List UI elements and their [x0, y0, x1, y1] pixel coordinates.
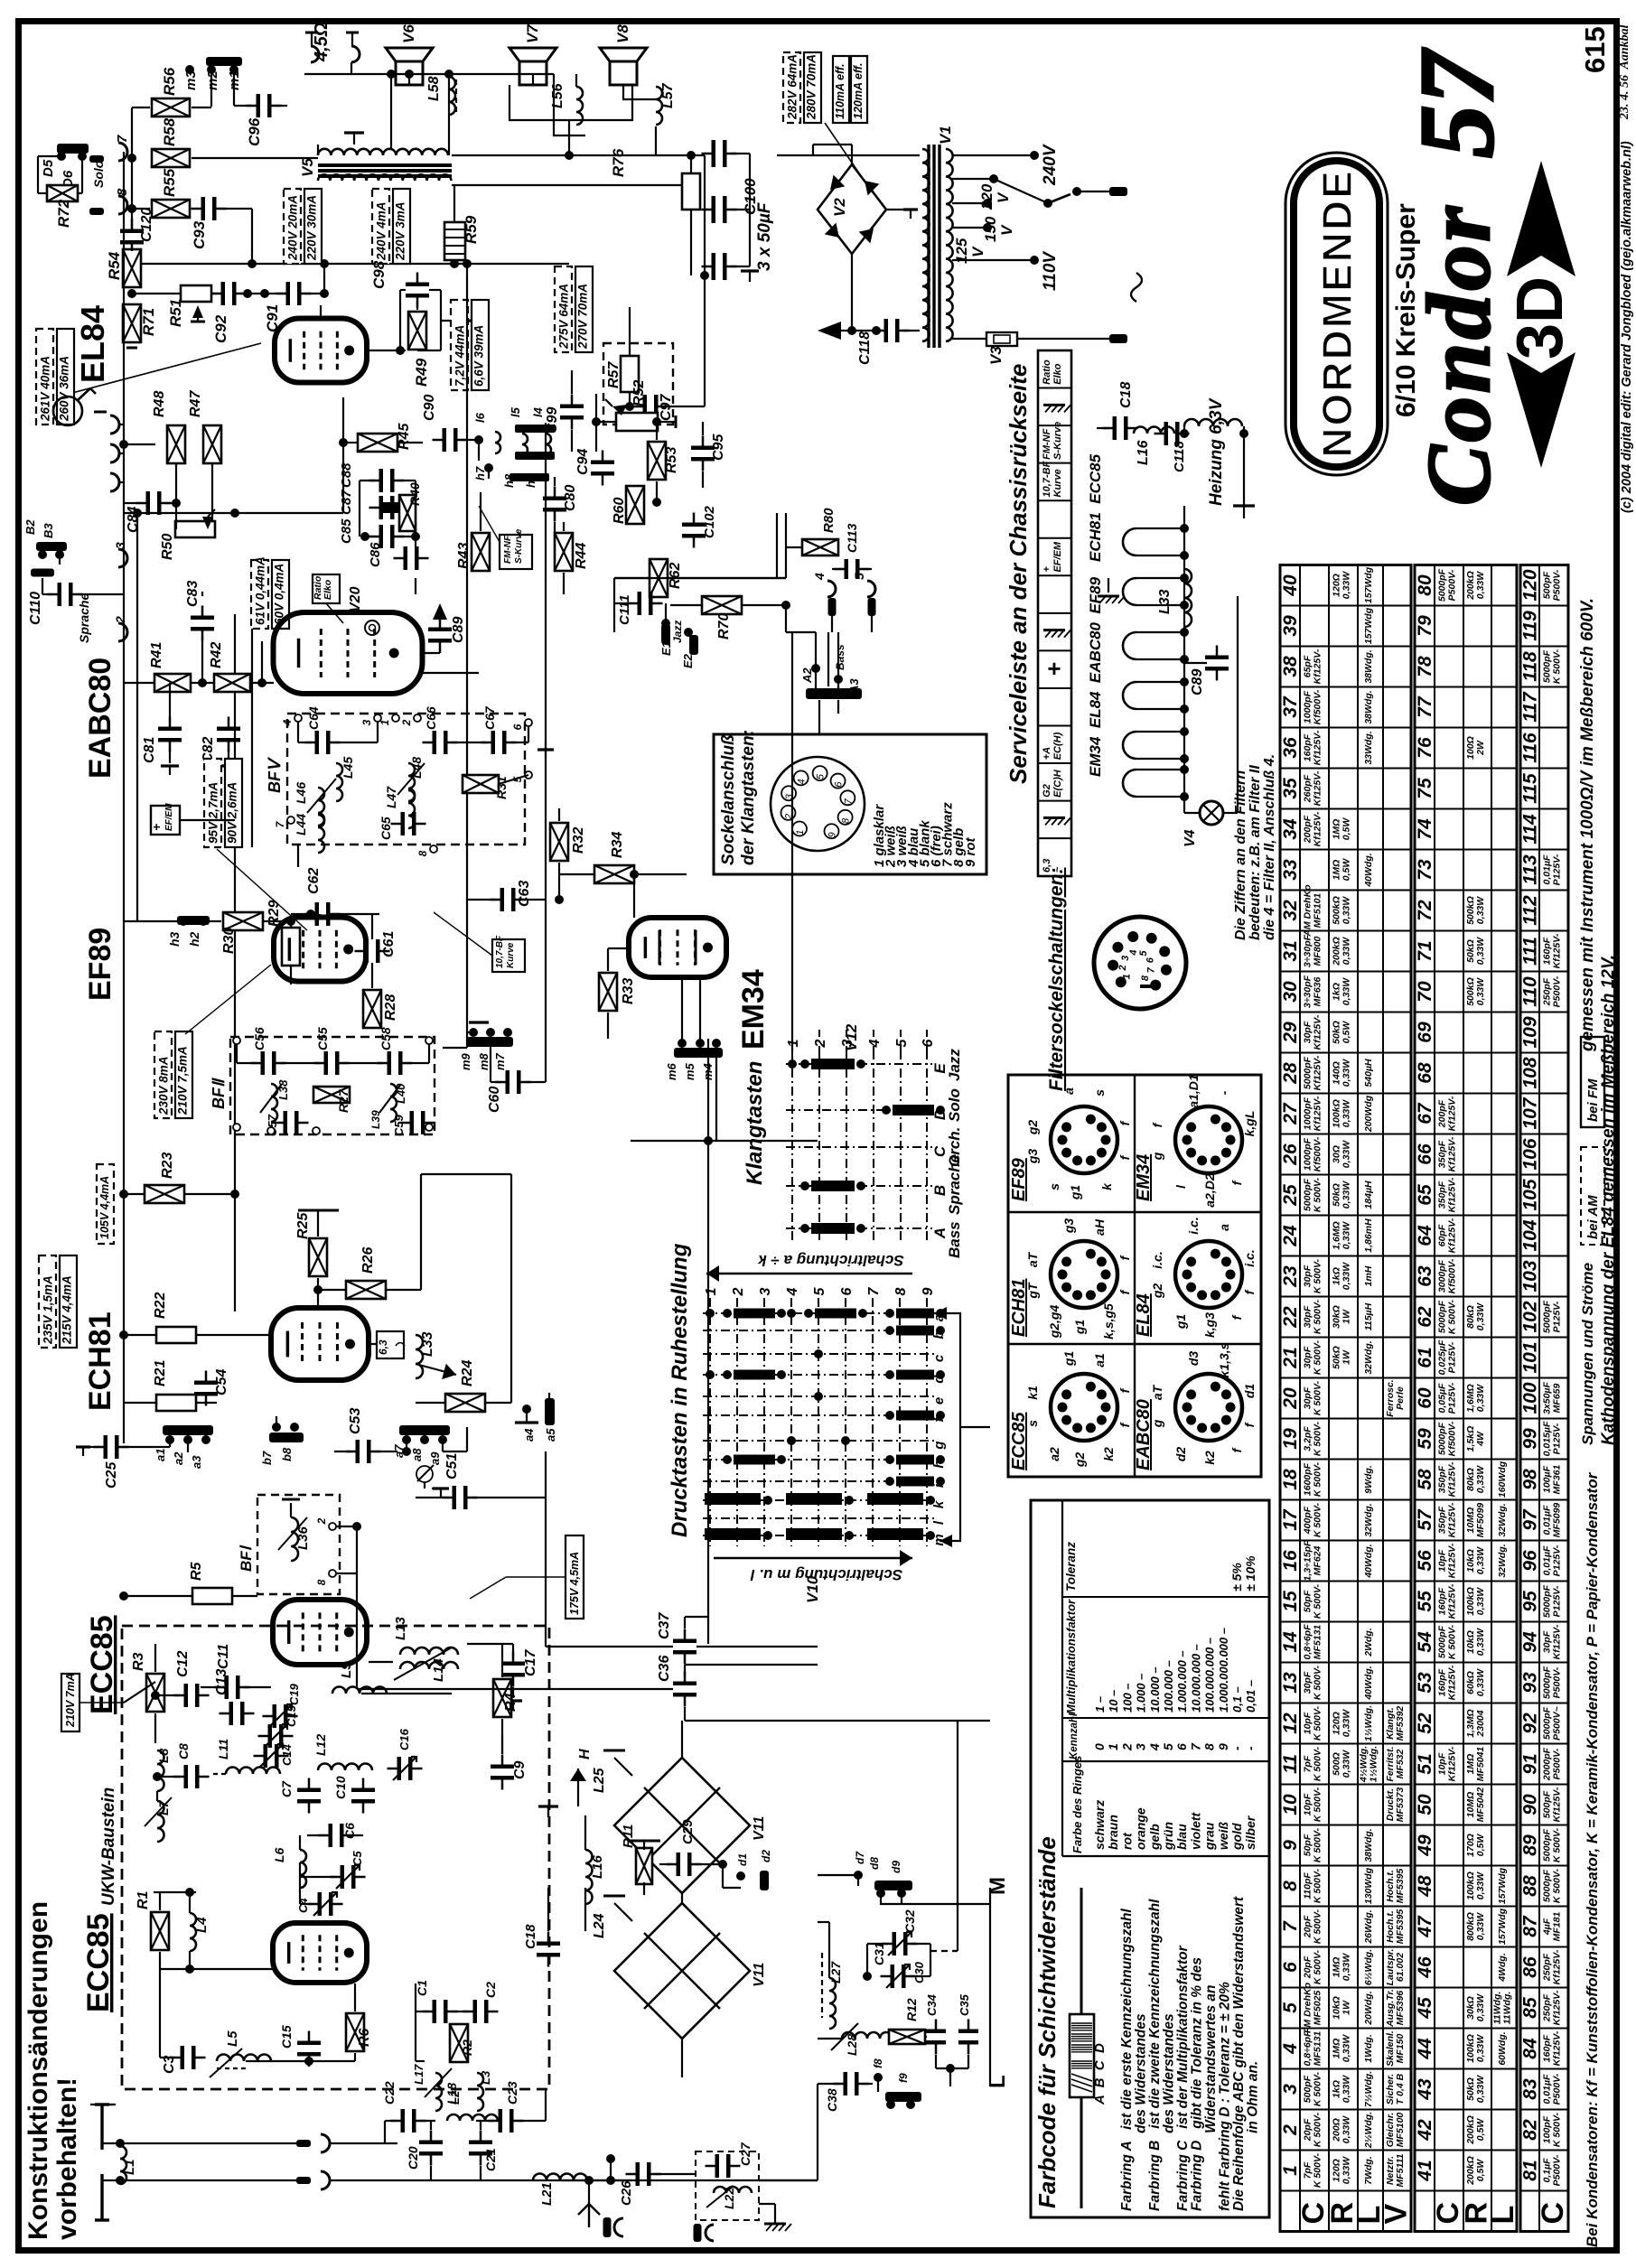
capacitor C55: [324, 1051, 329, 1075]
svg-text:Kf125V-: Kf125V-: [1447, 1177, 1458, 1212]
svg-text:d7: d7: [854, 1851, 866, 1864]
svg-text:C32: C32: [902, 1909, 917, 1933]
svg-text:8: 8: [1202, 1743, 1217, 1750]
svg-text:K 500V-: K 500V-: [1313, 1461, 1323, 1497]
svg-text:P500V-: P500V-: [1447, 569, 1458, 601]
resistor R26: [346, 1281, 386, 1299]
svg-text:K 500V-: K 500V-: [1313, 1746, 1323, 1781]
svg-text:R62: R62: [668, 563, 683, 589]
svg-text:MF5041: MF5041: [1475, 1747, 1486, 1782]
svg-text:73: 73: [1415, 859, 1435, 881]
pointer lines: [217, 849, 307, 930]
svg-text:V: V: [1379, 2204, 1414, 2225]
inductor L56: [576, 87, 583, 125]
AC symbol: [1131, 273, 1142, 302]
svg-text:MF5099: MF5099: [1475, 1503, 1486, 1538]
inductor L16 ant: [585, 1850, 593, 1904]
resistor R41: [154, 674, 191, 692]
capacitor C53: [356, 1440, 360, 1463]
resistor R12: [889, 2030, 925, 2044]
svg-text:silber: silber: [1243, 1815, 1257, 1850]
svg-text:BFⅠ: BFⅠ: [238, 1545, 255, 1572]
resistor R29: [282, 928, 300, 966]
wire speaker bus: [304, 73, 449, 75]
svg-text:260V 36mA: 260V 36mA: [58, 356, 71, 422]
plugs m7 m8 m9: [466, 1037, 513, 1047]
svg-text:Kathodenspannung der EL84 geme: Kathodenspannung der EL84 gemessen im Me…: [1599, 955, 1618, 1445]
svg-text:grün: grün: [1161, 1822, 1175, 1851]
svg-text:V: V: [969, 246, 986, 257]
svg-text:32Wdg.: 32Wdg.: [1363, 1503, 1374, 1536]
wire R54 to R51: [132, 293, 182, 294]
svg-text:105: 105: [1520, 1179, 1541, 1210]
svg-text:2: 2: [113, 616, 127, 624]
Klangtasten contact bars: [811, 1059, 855, 1069]
resistor R21: [156, 1395, 196, 1411]
svg-text:d1: d1: [736, 1853, 749, 1866]
svg-text:C23: C23: [505, 2081, 519, 2105]
svg-text:C86: C86: [368, 542, 383, 567]
svg-text:g: g: [1150, 1152, 1164, 1161]
svg-text:Kf125V-: Kf125V-: [1313, 649, 1323, 684]
heater loop ECC85: [1123, 528, 1136, 555]
svg-text:235V 1,5mA: 235V 1,5mA: [42, 1275, 55, 1345]
trimmer C32: [893, 1932, 897, 1955]
svg-text:C59: C59: [392, 1114, 406, 1136]
svg-text:4W: 4W: [1475, 1431, 1486, 1447]
jack arcs bottom: [296, 2140, 311, 2147]
svg-text:57: 57: [1415, 1508, 1435, 1531]
svg-text:+: +: [1042, 566, 1052, 573]
svg-text:C26: C26: [619, 2180, 634, 2206]
capacitor C65: [401, 812, 406, 835]
svg-text:C56: C56: [252, 1027, 266, 1050]
svg-text:R4: R4: [503, 1693, 519, 1712]
svg-text:C53: C53: [348, 1408, 363, 1434]
svg-text:7½Wdg.: 7½Wdg.: [1363, 2071, 1374, 2107]
svg-text:94: 94: [1520, 1631, 1541, 1653]
svg-text:gT: gT: [1025, 1282, 1040, 1300]
svg-text:200Wdg: 200Wdg: [1363, 1095, 1374, 1133]
svg-text:93: 93: [1520, 1672, 1541, 1694]
wires Klangtasten feeds: [614, 577, 786, 579]
input jacks: [110, 415, 119, 434]
svg-text:L56: L56: [550, 83, 566, 108]
svg-text:FM-NF: FM-NF: [503, 535, 513, 564]
svg-text:17: 17: [1280, 1508, 1301, 1531]
svg-text:MF624: MF624: [1313, 1546, 1323, 1576]
svg-text:weiß: weiß: [1216, 1821, 1230, 1850]
svg-text:vorbehalten!: vorbehalten!: [52, 2077, 82, 2240]
svg-text:58: 58: [1415, 1469, 1435, 1490]
svg-text:P125V-: P125V-: [1552, 1301, 1563, 1332]
svg-text:a9: a9: [428, 1451, 442, 1465]
svg-text:3: 3: [784, 793, 795, 799]
svg-text:0,33W: 0,33W: [1475, 1871, 1486, 1899]
svg-text:C17: C17: [523, 1649, 538, 1676]
svg-text:96: 96: [1520, 1550, 1541, 1572]
svg-text:7: 7: [1188, 1742, 1202, 1750]
svg-text:R57: R57: [606, 361, 622, 388]
svg-text:61.002: 61.002: [1395, 1953, 1406, 1982]
svg-text:0,33W: 0,33W: [1475, 977, 1486, 1005]
svg-text:32Wdg.: 32Wdg.: [1497, 1544, 1508, 1577]
svg-text:117: 117: [1520, 691, 1541, 723]
svg-text:89: 89: [1520, 1834, 1541, 1856]
svg-text:60V 0,4mA: 60V 0,4mA: [273, 564, 286, 625]
svg-text:3: 3: [758, 1287, 773, 1295]
svg-text:0,33W: 0,33W: [1342, 1140, 1352, 1168]
svg-text:(c) 2004 digital edit: Gerard: (c) 2004 digital edit: Gerard Jongbloed …: [1620, 141, 1634, 513]
svg-text:C54: C54: [214, 1369, 229, 1395]
svg-text:C66: C66: [424, 706, 438, 730]
svg-text:Kf500V-: Kf500V-: [1313, 689, 1323, 724]
svg-text:V2: V2: [831, 198, 848, 217]
resistor R80: [802, 539, 838, 555]
svg-text:V3: V3: [987, 346, 1005, 365]
svg-text:Kf125V-: Kf125V-: [1447, 1136, 1458, 1171]
svg-text:R33: R33: [621, 978, 636, 1004]
svg-text:a1,D1: a1,D1: [1186, 1074, 1201, 1108]
svg-text:39: 39: [1280, 615, 1301, 637]
svg-text:EABC80: EABC80: [1134, 1399, 1154, 1470]
svg-text:S-Kurve: S-Kurve: [514, 528, 524, 564]
resistor R51 potentiometer: [181, 285, 211, 302]
svg-text:C85: C85: [339, 518, 354, 544]
svg-text:0,33W: 0,33W: [1342, 1099, 1352, 1127]
svg-text:C: C: [1536, 2202, 1570, 2225]
capacitor C64: [315, 731, 320, 754]
box FM-NF S-Kurve: [500, 535, 532, 569]
svg-text:Kf125V-: Kf125V-: [1313, 1055, 1323, 1090]
resistor R71: [123, 304, 141, 342]
capacitor C102: [682, 523, 706, 527]
svg-text:Farbring D gibt die Toleranz: Farbring D gibt die Toleranz in % des: [1190, 1957, 1205, 2211]
svg-text:g2: g2: [1150, 1283, 1164, 1300]
svg-text:15: 15: [1280, 1591, 1301, 1612]
EF89 tube: [274, 918, 366, 982]
svg-text:m2: m2: [205, 70, 220, 90]
svg-text:Kf125V-: Kf125V-: [1447, 1218, 1458, 1253]
svg-text:11Wdg.: 11Wdg.: [1502, 1992, 1513, 2025]
svg-text:Die Ziffern an den Filtern: Die Ziffern an den Filtern: [1233, 770, 1248, 940]
svg-text:4Wdg.: 4Wdg.: [1497, 1953, 1508, 1983]
resistor R22: [156, 1327, 196, 1343]
svg-text:C31: C31: [872, 1942, 886, 1965]
svg-text:ECH81: ECH81: [83, 1311, 117, 1411]
svg-text:k2: k2: [1202, 1451, 1217, 1465]
resistor R47: [203, 425, 221, 463]
svg-text:32: 32: [1280, 900, 1301, 921]
plugs h3 h2: [177, 916, 210, 925]
resistor R24: [445, 1394, 485, 1412]
capacitor C58: [388, 1051, 392, 1075]
Drucktasten contact bars: [734, 1309, 775, 1319]
svg-text:40Wdg.: 40Wdg.: [1363, 1666, 1374, 1700]
svg-text:0,33W: 0,33W: [1475, 1384, 1486, 1412]
svg-text:215V 4,4mA: 215V 4,4mA: [61, 1275, 74, 1345]
svg-text:Sockelanschluß: Sockelanschluß: [719, 734, 738, 865]
variable inductor L24 V11: [614, 1903, 750, 2039]
svg-text:K 500V-: K 500V-: [1313, 1502, 1323, 1537]
arrow H: [577, 1769, 579, 1806]
inductor L16 heater: [1134, 427, 1174, 434]
svg-text:Kf125V-: Kf125V-: [1447, 1665, 1458, 1700]
svg-text:± 10%: ± 10%: [1243, 1555, 1257, 1591]
inductor L33 heater: [1184, 569, 1192, 627]
svg-text:R72: R72: [55, 199, 72, 228]
wire EABC80 col: [234, 614, 236, 1311]
current box 110mA eff: [833, 56, 849, 123]
svg-text:82: 82: [1520, 2119, 1541, 2141]
svg-text:a1: a1: [1092, 1353, 1107, 1367]
svg-text:R3: R3: [131, 1652, 146, 1671]
Drucktasten switch matrix: [709, 1298, 711, 1546]
svg-text:k: k: [1099, 1182, 1114, 1190]
capacitors C85 C86: [379, 525, 384, 548]
svg-text:Drucktasten in Ruhestellung: Drucktasten in Ruhestellung: [668, 1243, 692, 1537]
svg-text:C37: C37: [657, 1612, 672, 1639]
svg-text:K 500V-: K 500V-: [1313, 2112, 1323, 2147]
svg-text:C11: C11: [216, 1644, 231, 1669]
svg-text:6: 6: [1174, 1743, 1189, 1750]
svg-text:P125V-: P125V-: [1447, 1382, 1458, 1414]
voltage box 275V 64mA: [555, 266, 572, 352]
svg-text:R11: R11: [621, 1825, 636, 1848]
Drucktasten side bracket: [934, 1313, 960, 1541]
inductor L38: [271, 1084, 277, 1122]
svg-text:D5: D5: [41, 159, 56, 177]
wire second bus: [136, 513, 138, 921]
svg-text:C55: C55: [315, 1027, 330, 1050]
svg-text:0,33W: 0,33W: [1342, 1181, 1352, 1209]
inductor L4: [190, 1913, 196, 1951]
capacitors C1 C2: [433, 2000, 437, 2023]
svg-text:K 500V-: K 500V-: [1552, 1868, 1563, 1903]
svg-text:R23: R23: [160, 1153, 175, 1179]
svg-text:ECC85: ECC85: [81, 1913, 116, 2012]
svg-text:C61: C61: [381, 931, 397, 957]
capacitors C22 C20: [401, 2109, 406, 2133]
svg-text:C36: C36: [657, 1656, 672, 1682]
jack 8: [118, 196, 127, 214]
svg-text:69: 69: [1415, 1022, 1435, 1043]
svg-text:Kurve: Kurve: [506, 942, 516, 968]
svg-text:81: 81: [1520, 2160, 1541, 2180]
svg-text:R31: R31: [494, 776, 509, 799]
resistor R2: [450, 2024, 468, 2062]
tube socket ECH81: [1051, 1241, 1117, 1308]
svg-text:k,gL: k,gL: [1242, 1111, 1257, 1137]
svg-text:m6: m6: [665, 1062, 678, 1080]
svg-text:Die Reihenfolge ABC gibt den W: Die Reihenfolge ABC gibt den Widerstands…: [1231, 1896, 1247, 2211]
svg-text:L57: L57: [660, 82, 676, 108]
wire to matrix: [545, 1626, 547, 1647]
svg-text:6: 6: [1280, 1962, 1301, 1973]
inductor L46: [318, 788, 324, 826]
resistor R34: [594, 865, 634, 883]
svg-text:120: 120: [1520, 569, 1541, 601]
svg-text:-: -: [1217, 1090, 1231, 1095]
svg-text:0,33W: 0,33W: [1342, 1059, 1352, 1087]
connector m3: [185, 65, 194, 74]
svg-text:K 500V-: K 500V-: [1313, 1380, 1323, 1415]
svg-text:7: 7: [1280, 1920, 1301, 1932]
resistor R43: [472, 533, 490, 571]
svg-text:75: 75: [1415, 778, 1435, 799]
svg-text:MF532: MF532: [1395, 1750, 1406, 1779]
svg-text:K 500V-: K 500V-: [1313, 1827, 1323, 1862]
svg-text:m8: m8: [477, 1052, 491, 1070]
svg-text:50: 50: [1415, 1794, 1435, 1815]
svg-text:100.000 –: 100.000 –: [1162, 1660, 1175, 1713]
svg-text:105V 4,4mA: 105V 4,4mA: [98, 1176, 111, 1239]
svg-text:R43: R43: [456, 543, 472, 569]
svg-text:b8: b8: [280, 1447, 294, 1461]
svg-text:9: 9: [921, 1287, 936, 1295]
svg-text:Toleranz: Toleranz: [1064, 1542, 1078, 1591]
svg-text:2: 2: [813, 1039, 828, 1048]
box EF EM: [151, 806, 180, 835]
svg-text:1Wdg.: 1Wdg.: [1363, 2034, 1374, 2063]
wire Klangtasten feeds from EM34: [791, 1030, 793, 1050]
svg-text:EABC80: EABC80: [83, 658, 117, 779]
capacitor C84: [146, 491, 151, 515]
svg-text:Kf125V-: Kf125V-: [1552, 1949, 1563, 1984]
svg-text:L1: L1: [122, 2159, 137, 2175]
svg-text:C120: C120: [139, 208, 154, 242]
capacitor C118: [884, 319, 889, 342]
svg-text:L16: L16: [1136, 440, 1151, 465]
svg-text:P500V-: P500V-: [1552, 2073, 1563, 2105]
wire mid vertical: [545, 423, 547, 1048]
svg-text:R5: R5: [189, 1561, 204, 1581]
svg-text:10,7-BF: 10,7-BF: [495, 935, 505, 968]
svg-text:S-Kurve: S-Kurve: [1052, 422, 1063, 460]
svg-text:160Wdg: 160Wdg: [1497, 1461, 1508, 1498]
svg-text:B3: B3: [42, 523, 55, 538]
svg-text:g1: g1: [1061, 1351, 1076, 1367]
svg-text:K 500V-: K 500V-: [1313, 1665, 1323, 1700]
svg-text:g2: g2: [1025, 1120, 1040, 1136]
capacitor C36: [673, 1682, 696, 1686]
svg-text:m3: m3: [183, 70, 199, 90]
svg-text:gemessen mit Instrument 1000Ω/: gemessen mit Instrument 1000Ω/V im Meßbe…: [1578, 598, 1597, 1052]
svg-text:aT: aT: [1025, 1251, 1040, 1267]
svg-text:d3: d3: [1186, 1351, 1201, 1367]
svg-text:+A: +A: [1042, 747, 1052, 760]
svg-text:C25: C25: [104, 1461, 119, 1489]
svg-text:R53: R53: [664, 447, 679, 473]
svg-text:Spannungen und Ströme: Spannungen und Ströme: [1579, 1263, 1596, 1445]
svg-text:5: 5: [894, 1038, 910, 1047]
svg-text:C29: C29: [680, 1819, 696, 1844]
capacitor C57: [284, 1111, 288, 1134]
svg-text:1: 1: [704, 1287, 719, 1295]
speaker V6: [386, 48, 433, 61]
svg-text:2: 2: [1117, 965, 1128, 971]
svg-text:1: 1: [786, 1039, 801, 1047]
svg-text:a2: a2: [172, 1451, 185, 1465]
voltage box 7,2V 44mA: [451, 300, 468, 390]
svg-text:a5: a5: [544, 1428, 557, 1442]
svg-text:Sprache: Sprache: [946, 1154, 963, 1215]
svg-text:Bass: Bass: [834, 644, 846, 670]
svg-text:90V 2,6mA: 90V 2,6mA: [226, 782, 239, 844]
svg-text:R26: R26: [360, 1247, 376, 1274]
svg-text:Kf500V-: Kf500V-: [1447, 1421, 1458, 1456]
svg-text:1.000 –: 1.000 –: [1135, 1674, 1148, 1713]
svg-text:157Wdg: 157Wdg: [1363, 566, 1374, 603]
svg-text:V12: V12: [843, 1023, 860, 1051]
svg-text:h2: h2: [187, 931, 201, 947]
resistor R52 pot: [616, 413, 658, 431]
svg-text:L: L: [1486, 2206, 1520, 2225]
svg-text:34: 34: [1280, 818, 1301, 840]
svg-text:107: 107: [1520, 1097, 1541, 1129]
svg-text:C13: C13: [214, 1669, 229, 1695]
svg-text:7Wdg.: 7Wdg.: [1363, 2156, 1374, 2185]
svg-text:R1: R1: [136, 1890, 151, 1909]
svg-text:i.c.: i.c.: [1242, 1249, 1257, 1266]
svg-text:Heizung 6,3V: Heizung 6,3V: [1207, 397, 1226, 506]
svg-text:P500V-: P500V-: [1552, 1666, 1563, 1698]
svg-text:540µH: 540µH: [1363, 1059, 1374, 1087]
plugs d7 d8 d9: [854, 1871, 863, 1880]
svg-text:99: 99: [1520, 1428, 1541, 1450]
svg-text:a1: a1: [154, 1449, 167, 1461]
svg-text:4: 4: [281, 719, 294, 726]
wire B+ vertical: [466, 264, 468, 1048]
svg-text:104: 104: [1520, 1219, 1541, 1251]
svg-text:C15: C15: [279, 2025, 294, 2049]
capacitor C95: [691, 446, 715, 451]
svg-text:108: 108: [1520, 1057, 1541, 1088]
resistor R49: [408, 312, 426, 350]
svg-text:EM34: EM34: [1134, 1154, 1154, 1201]
capacitor C6: [329, 1824, 333, 1847]
svg-text:K 500V-: K 500V-: [1313, 1868, 1323, 1903]
svg-text:K 500V-: K 500V-: [1313, 2071, 1323, 2106]
trimmer C5: [341, 1865, 345, 1889]
svg-text:f9: f9: [897, 2073, 910, 2083]
svg-text:C63: C63: [517, 881, 532, 907]
voltage box 235V 1,5mA: [39, 1255, 56, 1348]
svg-text:Kf125V-: Kf125V-: [1552, 1624, 1563, 1659]
svg-text:36: 36: [1280, 737, 1301, 759]
inductor L8: [157, 1750, 164, 1791]
svg-text:100: 100: [1520, 1382, 1541, 1414]
capacitors C21 C23: [469, 2141, 492, 2145]
svg-text:Sprache: Sprache: [77, 593, 91, 643]
svg-text:C100: C100: [742, 178, 759, 215]
capacitor C81: [158, 727, 182, 732]
svg-text:C113: C113: [845, 523, 859, 553]
svg-text:C10: C10: [333, 1776, 348, 1799]
svg-text:67: 67: [1415, 1102, 1435, 1125]
svg-text:l6: l6: [473, 412, 487, 423]
capacitor C12: [184, 1684, 189, 1707]
svg-text:0,33W: 0,33W: [1342, 1709, 1352, 1737]
svg-text:47: 47: [1415, 1915, 1435, 1938]
record player icon: [53, 397, 82, 425]
heater loop EL84: [1123, 732, 1136, 759]
svg-text:0,5W: 0,5W: [1342, 817, 1352, 841]
svg-text:L28: L28: [845, 2034, 859, 2056]
box R57 C97: [603, 343, 673, 425]
svg-text:6: 6: [834, 781, 845, 788]
svg-text:h3: h3: [167, 931, 182, 947]
